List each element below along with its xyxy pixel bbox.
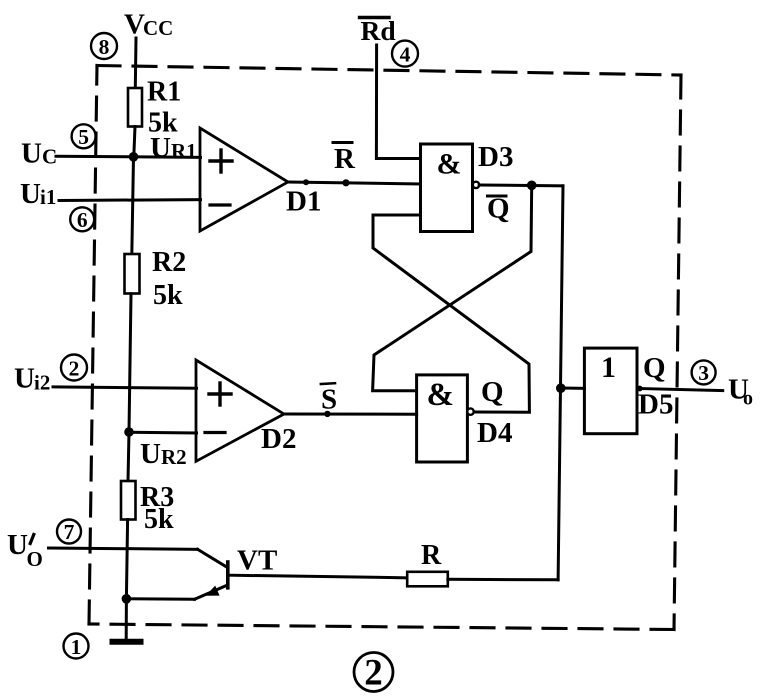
node dot on D1 output [303,179,309,185]
resistor R2 [125,254,140,294]
pin 8 circle [91,33,117,59]
svg-text:Q: Q [643,352,666,384]
nand gate D3 [421,144,473,232]
pin 1 circle [64,634,89,660]
svg-text:U: U [150,132,171,164]
label UR1 [150,132,197,164]
svg-text:2: 2 [69,357,80,381]
svg-text:o: o [743,388,753,410]
wire D5 input [562,387,585,390]
svg-text:6: 6 [77,208,88,232]
wire D5 output [643,389,723,391]
junction Q-bar [527,181,537,191]
svg-text:R1: R1 [171,139,197,163]
svg-text:U: U [14,363,35,395]
wire R1 to node UR1 [134,127,135,157]
svg-text:CC: CC [143,16,173,40]
svg-text:4: 4 [400,43,411,67]
wire U'O discharge line (VT collector) [49,548,198,549]
collector slant [198,549,227,567]
svg-text:VT: VT [237,545,277,577]
svg-text:2: 2 [364,653,383,694]
node S-bar dot [324,411,330,417]
node R-bar dot [342,179,349,186]
wire R3 down to emitter node [126,520,127,599]
wire D1 output to D3 (node R-bar) [288,182,421,184]
pin 3 circle [692,360,716,385]
minus sign D1 [210,203,230,206]
wire cross-coupling Q to D3 input [373,215,529,412]
svg-text:U: U [20,178,41,210]
junction D5 input [556,383,566,393]
resistor R1 [128,88,142,127]
plus sign D1 [210,150,232,172]
svg-text:Q: Q [481,376,504,408]
buffer gate D5 [584,348,637,434]
plus sign D2 [209,383,231,405]
dashed IC boundary box [89,66,681,630]
wire cross-coupling Q-bar to D4 input [373,185,532,390]
svg-text:R1: R1 [147,77,181,108]
resistor R3 [121,481,136,520]
node D5 output dot [637,386,643,392]
label Uo [728,374,753,410]
resistor R [407,572,448,587]
label Rd-bar [361,15,396,46]
wire node UR1 to R2 [132,157,134,256]
svg-text:5: 5 [78,125,89,149]
wire UR2 to D2 minus input [129,431,197,435]
svg-text:U: U [21,138,42,170]
wire Ui1 input line [59,198,201,202]
emitter arrow [206,586,220,596]
pin 5 circle [72,124,96,149]
svg-text:R2: R2 [152,247,186,278]
svg-text:V: V [124,9,145,41]
wire D2 output to D4 (node S-bar) [284,413,417,416]
svg-text:D2: D2 [261,423,296,455]
wire D3 output to corner (node Q-bar) [479,184,563,188]
label R-bar [334,143,356,175]
label Q-bar [487,193,510,225]
svg-text:3: 3 [698,361,709,385]
node UR2 junction [124,427,134,437]
pin 4 circle [392,41,418,67]
svg-text:O: O [27,547,43,571]
pin 6 circle [70,207,94,232]
wire node to ground [125,599,128,639]
svg-text:S: S [321,384,337,416]
wire emitter to ground rail [126,597,194,601]
wire Q-bar vertical rail to R [558,186,563,580]
svg-text:7: 7 [64,520,75,544]
transistor VT [195,549,228,599]
label Ui1 [20,178,56,210]
label UR2 [140,438,187,470]
figure number circled 2 [354,653,393,694]
svg-text:R: R [421,540,442,571]
junction emitter node [122,594,132,604]
svg-text:5k: 5k [153,280,183,311]
wire R to Q-bar rail [448,578,558,582]
wire UC input line [56,156,201,157]
svg-text:D1: D1 [286,186,321,218]
svg-text:&: & [427,377,455,413]
wire UR2 to R3 [128,432,129,481]
svg-text:R: R [334,143,356,175]
wire Rd input lead [376,45,420,159]
svg-text:1: 1 [71,635,82,659]
minus sign D2 [205,431,225,434]
op-amp comparator D2 [196,360,284,461]
output bubble D3 [473,182,479,188]
pin 7 circle [57,520,81,545]
svg-text:U: U [7,529,28,561]
label U'O [7,529,28,561]
wire VT base to R [230,575,408,578]
nand gate D4 [417,375,468,462]
base bar [226,562,230,588]
svg-text:Rd: Rd [361,15,396,46]
op-amp comparator D1 [200,128,288,231]
svg-text:i1: i1 [40,185,56,209]
emitter slant [195,586,227,600]
VCC label [124,9,173,41]
label S-bar [321,384,337,416]
pin 2 circle [61,355,87,381]
ground [113,639,141,645]
output bubble D4 [467,408,473,414]
svg-text:8: 8 [99,35,110,59]
svg-text:1: 1 [601,351,616,384]
label Ui2 [14,363,50,395]
node UR1 junction [129,152,139,162]
svg-text:&: & [437,148,462,181]
wire VCC lead [134,38,138,88]
svg-text:5k: 5k [144,504,174,535]
wire R2 to node UR2 [129,294,131,432]
svg-text:R2: R2 [161,445,187,469]
svg-text:i2: i2 [34,371,50,395]
svg-text:D5: D5 [638,389,673,421]
svg-text:U: U [140,438,161,470]
svg-text:D4: D4 [477,417,512,449]
label UC [21,138,57,170]
wire Ui2 input line [53,387,197,388]
svg-text:D3: D3 [478,141,513,173]
